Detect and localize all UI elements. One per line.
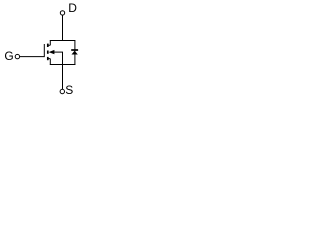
wire body to source: [54, 51, 63, 53]
wire source inner vertical: [62, 52, 64, 65]
body diode anode triangle: [72, 51, 78, 55]
wire drain drop to channel: [48, 41, 50, 46]
body diode vertical wire: [74, 41, 76, 66]
channel segment top: [47, 44, 49, 47]
wire source lead: [62, 65, 64, 90]
wire gate lead: [20, 56, 44, 58]
svg-text:D: D: [68, 1, 77, 15]
body diode cathode bar: [71, 49, 78, 51]
body arrow: [49, 50, 55, 54]
svg-text:G: G: [4, 49, 13, 63]
wire source drop from channel: [48, 59, 50, 65]
wire drain lead: [62, 15, 64, 41]
terminal D circle: [60, 11, 64, 15]
terminal S circle: [60, 89, 64, 93]
svg-text:S: S: [65, 83, 73, 97]
wire bottom rail: [50, 64, 76, 66]
channel segment bottom: [47, 57, 49, 60]
terminal G circle: [15, 54, 19, 58]
background: [0, 0, 109, 105]
wire top rail: [50, 40, 76, 42]
channel segment middle: [47, 51, 49, 54]
gate bar: [43, 44, 45, 57]
